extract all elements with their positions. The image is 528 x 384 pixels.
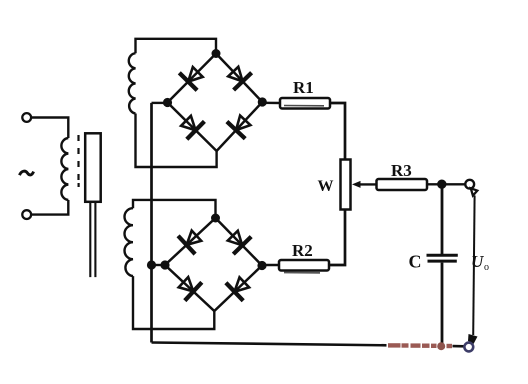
wire top terminal to primary (31, 118, 68, 139)
svg-text:U: U (471, 252, 484, 271)
diode D5 (178, 231, 201, 255)
AC source tilde (20, 171, 34, 175)
secondary winding 2 (125, 208, 134, 276)
wire R3 to output node (427, 183, 466, 185)
diode D7 (179, 277, 202, 301)
node bridge2 left (162, 262, 169, 269)
wire secondary2 bottom to bridge2 bottom (133, 276, 214, 329)
pot W wiper arrow (352, 181, 361, 188)
node common negative junction (148, 262, 155, 269)
svg-text:R1: R1 (293, 78, 314, 97)
bottom rail right section (453, 345, 465, 348)
R1 inner smudge (284, 105, 324, 107)
transformer core dashes (77, 135, 79, 187)
wire capacitor C to bottom rail (441, 263, 444, 347)
node bridge1 left (164, 99, 171, 106)
resistor R1 (280, 98, 330, 109)
diode D3 (181, 116, 204, 139)
capacitor C top plate (427, 254, 458, 257)
wire common negative vertical (150, 103, 153, 343)
wire secondary1 top to bridge1 top (136, 39, 217, 54)
wire bridge1 right node to R1 (262, 102, 280, 105)
wire bridge2 left node to common negative (152, 264, 166, 266)
svg-text:C: C (409, 252, 422, 272)
output terminal top tail (471, 188, 478, 195)
diode D6 (228, 231, 251, 254)
wire output positive down (473, 196, 474, 336)
output terminal bottom tail (468, 334, 478, 344)
capacitor C bottom plate (428, 260, 457, 263)
diode D8 (226, 277, 249, 300)
R2 under smudge (284, 272, 320, 274)
wire bridge1 left node to common negative line (152, 102, 168, 104)
transformer primary winding (61, 138, 68, 200)
node bridge2 right (259, 262, 266, 269)
diode D4 (227, 116, 251, 139)
svg-text:o: o (484, 262, 489, 273)
resistor R2 (279, 260, 329, 271)
node bridge1 right (259, 99, 266, 106)
svg-text:R3: R3 (391, 161, 412, 180)
bottom rail left section (152, 343, 387, 346)
transformer core bar (85, 133, 101, 202)
wire secondary2 top to bridge2 top (133, 200, 216, 218)
node capacitor bottom (437, 342, 445, 350)
bridge2 diamond wires (165, 218, 262, 311)
diode D1 (179, 67, 202, 90)
transformer core lines lower (89, 202, 91, 277)
svg-text:R2: R2 (292, 241, 313, 260)
wire pot W bottom to R2 (329, 210, 345, 266)
secondary winding 1 (129, 53, 136, 113)
svg-text:W: W (318, 178, 334, 195)
AC input terminal top (22, 113, 31, 122)
diode D2 (228, 67, 251, 90)
wire R1 to pot W top (330, 103, 345, 160)
wire node to capacitor C (441, 186, 444, 254)
resistor R3 (377, 179, 428, 190)
wire wiper to R3 (360, 183, 377, 185)
output terminal top (465, 180, 474, 189)
node output positive (438, 181, 445, 188)
node bridge1 top (213, 50, 220, 57)
potentiometer W body (341, 160, 351, 210)
watermark red dashes on rail (388, 343, 452, 348)
wire bridge2 right node to R2 (262, 264, 279, 266)
bridge1 diamond wires (168, 54, 263, 152)
node bridge2 top (212, 215, 219, 222)
wire primary to bottom terminal (31, 200, 68, 215)
wire secondary1 bottom to bridge1 bottom (136, 114, 217, 168)
output terminal bottom (464, 343, 473, 352)
AC input terminal bottom (22, 210, 31, 219)
